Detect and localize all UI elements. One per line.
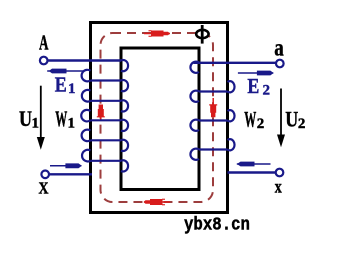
wire: terminal A to winding W1	[48, 59, 121, 61]
value label U1	[19, 106, 39, 132]
value label E2	[247, 74, 270, 99]
svg-text:U: U	[19, 106, 32, 131]
terminal x	[276, 169, 284, 177]
svg-text:2: 2	[298, 116, 306, 132]
svg-text:A: A	[39, 31, 49, 55]
wire: terminal a to winding W2	[194, 62, 276, 64]
voltage arrow U1 (downward)	[37, 86, 45, 150]
svg-text:x: x	[275, 176, 282, 196]
current arrow at terminal x (pointing left)	[237, 162, 271, 167]
voltage arrow U2 (downward)	[277, 89, 285, 148]
transformer core T1 outer boundary	[91, 23, 228, 213]
value label U2	[285, 107, 305, 133]
EMF arrow E2 (pointing right, at terminal a)	[238, 71, 274, 76]
terminal A	[40, 57, 48, 65]
value label W2	[244, 107, 264, 133]
EMF arrow E1 (pointing left, at terminal A)	[47, 69, 84, 74]
wire: terminal x to winding W2	[228, 171, 276, 173]
svg-text:1: 1	[32, 116, 40, 132]
value label E1	[55, 73, 76, 98]
flux direction arrow, top limb (rightward)	[144, 30, 170, 37]
flux direction arrow, bottom limb (leftward)	[144, 199, 171, 206]
transformer core T1 inner window	[121, 48, 199, 190]
svg-text:ybx8.cn: ybx8.cn	[184, 216, 250, 236]
svg-text:2: 2	[257, 116, 265, 132]
svg-text:W: W	[55, 106, 67, 131]
wire: terminal X to winding W1	[50, 173, 93, 175]
current arrow at terminal X (pointing right)	[50, 163, 82, 168]
svg-text:2: 2	[263, 83, 271, 99]
svg-text:1: 1	[68, 81, 76, 97]
flux path (dashed loop inside core)	[100, 33, 213, 202]
svg-text:1: 1	[68, 116, 76, 132]
svg-text:U: U	[285, 107, 298, 132]
flux direction arrow, right limb (downward)	[209, 98, 217, 117]
secondary winding W2 (on right leg)	[190, 62, 234, 160]
terminal X	[41, 171, 49, 179]
terminal a	[276, 60, 284, 68]
svg-text:X: X	[39, 179, 50, 198]
flux direction arrow, left limb (upward)	[97, 105, 105, 122]
svg-text:W: W	[244, 107, 256, 132]
flux label Φ	[196, 25, 208, 44]
svg-text:E: E	[55, 73, 67, 97]
value label W1	[55, 106, 75, 132]
svg-text:E: E	[247, 74, 259, 98]
primary winding W1 (on left leg)	[81, 60, 128, 172]
svg-text:a: a	[274, 35, 284, 61]
